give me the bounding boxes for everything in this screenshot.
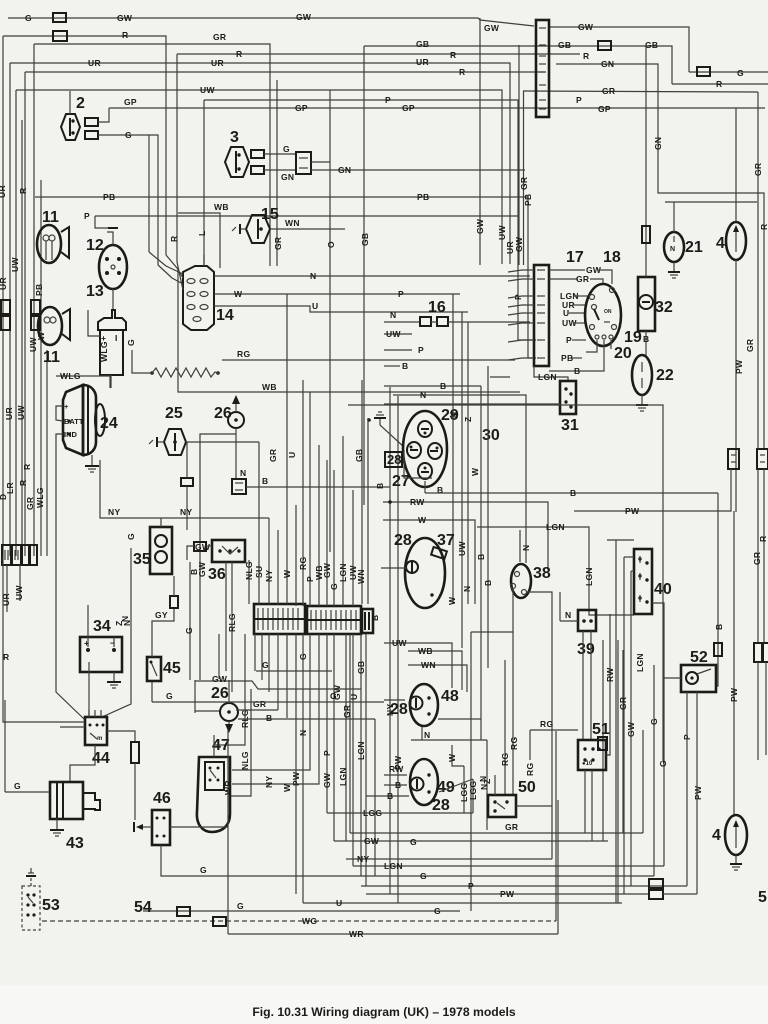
wire GR from 26 (236, 709, 278, 711)
svg-text:LGN: LGN (338, 767, 348, 786)
fusebox strip A (254, 604, 305, 634)
svg-text:UW: UW (457, 541, 467, 556)
gauge bulb top (418, 421, 432, 437)
svg-text:N: N (448, 412, 458, 418)
ignition feed 26 area wire (218, 634, 220, 679)
svg-text:G: G (262, 660, 269, 670)
left edge lower connector row (2, 545, 11, 565)
wire PB long (35, 197, 536, 358)
svg-text:NY: NY (264, 776, 274, 788)
svg-text:WB: WB (262, 382, 277, 392)
svg-text:U: U (349, 694, 359, 700)
stub leads into block (508, 270, 534, 272)
svg-text:G: G (237, 901, 244, 911)
svg-text:35: 35 (133, 551, 151, 568)
svg-text:LGG: LGG (363, 808, 382, 818)
wire UW long (16, 90, 502, 264)
svg-text:LGN: LGN (384, 861, 403, 871)
svg-text:47: 47 (212, 737, 230, 754)
wire R second (177, 53, 580, 55)
svg-text:WLG: WLG (35, 487, 45, 508)
svg-text:12: 12 (86, 237, 104, 254)
svg-text:GR: GR (273, 237, 283, 250)
svg-text:UR: UR (88, 58, 101, 68)
gauge bulb right (428, 443, 442, 459)
multi-connector block upper (17/18 top) (536, 20, 549, 117)
fusebox strip B (307, 606, 361, 634)
svg-text:W: W (470, 467, 480, 476)
wire U bus (303, 902, 622, 904)
wire NY bus (346, 858, 552, 860)
svg-text:U: U (563, 308, 569, 318)
svg-text:P: P (84, 211, 90, 221)
wire B long to right (425, 492, 718, 494)
svg-text:N: N (565, 610, 571, 620)
svg-text:W: W (234, 289, 243, 299)
svg-text:37: 37 (437, 532, 455, 549)
svg-text:P: P (566, 335, 572, 345)
svg-text:B: B (574, 366, 580, 376)
svg-text:N: N (420, 390, 426, 400)
wires right of lamps (452, 745, 464, 766)
wire P mid (95, 216, 108, 228)
svg-text:48: 48 (441, 688, 459, 705)
ground below lamp 4 (730, 863, 742, 865)
svg-text:GW: GW (296, 12, 312, 22)
svg-text:R: R (450, 50, 456, 60)
svg-text:22: 22 (656, 367, 674, 384)
svg-text:4: 4 (716, 235, 725, 252)
svg-text:B: B (483, 580, 493, 586)
wire LGG (327, 812, 473, 814)
svg-text:GP: GP (295, 103, 308, 113)
svg-text:B: B (402, 361, 408, 371)
svg-text:11: 11 (43, 349, 60, 366)
svg-text:G: G (330, 691, 337, 701)
svg-text:+: + (64, 402, 69, 411)
junction arrow into cluster (379, 418, 381, 425)
svg-text:46: 46 (153, 790, 171, 807)
wire LGN to lamp 40 (477, 527, 634, 615)
svg-text:GN: GN (281, 172, 294, 182)
gauge bulb left (407, 442, 421, 458)
wire WB corner (178, 213, 220, 268)
svg-text:UR: UR (211, 58, 224, 68)
svg-text:31: 31 (561, 417, 579, 434)
svg-text:36: 36 (208, 566, 226, 583)
svg-text:GB: GB (360, 233, 370, 246)
svg-text:2: 2 (76, 95, 85, 112)
svg-text:U: U (287, 452, 297, 458)
instrument cluster housing 28/27 (403, 411, 447, 487)
svg-text:P: P (398, 289, 404, 299)
tails below connector row (6, 565, 8, 612)
svg-text:R: R (22, 464, 32, 470)
svg-text:R: R (716, 79, 722, 89)
wire UR long (10, 63, 510, 264)
svg-text:Z: Z (463, 417, 473, 423)
svg-text:GR: GR (25, 497, 35, 510)
wire P top (204, 100, 536, 340)
wire B from 26 (238, 718, 375, 720)
svg-text:GP: GP (598, 104, 611, 114)
svg-text:GB: GB (354, 449, 364, 462)
svg-text:B: B (375, 483, 385, 489)
svg-text:ON: ON (604, 309, 612, 315)
svg-text:W: W (282, 783, 292, 792)
svg-text:N: N (521, 545, 531, 551)
svg-text:W: W (282, 569, 292, 578)
svg-text:G: G (283, 144, 290, 154)
svg-text:34: 34 (93, 618, 111, 635)
svg-text:B: B (266, 713, 272, 723)
connector box on G/GW wire (53, 13, 66, 22)
wire WLG label (56, 376, 110, 388)
svg-text:GR: GR (602, 86, 615, 96)
svg-text:RG: RG (540, 719, 553, 729)
svg-text:LGN: LGN (338, 563, 348, 582)
svg-text:4: 4 (712, 827, 721, 844)
svg-text:WR: WR (223, 780, 233, 795)
wire B over cluster (384, 385, 481, 387)
svg-text:N: N (390, 310, 396, 320)
svg-text:GB: GB (558, 40, 571, 50)
svg-text:GW: GW (475, 218, 485, 234)
svg-text:GW: GW (195, 542, 211, 552)
cluster lower lead B (424, 481, 426, 493)
svg-text:LGN: LGN (584, 567, 594, 586)
svg-text:SU: SU (254, 566, 264, 578)
svg-text:G: G (166, 691, 173, 701)
wire N over cluster (393, 395, 526, 563)
hazard unit 51 (598, 737, 607, 750)
ground below battery (113, 672, 115, 682)
svg-text:R: R (122, 30, 128, 40)
svg-text:UW: UW (392, 638, 407, 648)
wire WB into 48 (408, 651, 462, 690)
svg-text:UR: UR (416, 57, 429, 67)
svg-text:N: N (462, 586, 472, 592)
svg-text:43: 43 (66, 835, 84, 852)
svg-text:NLG: NLG (240, 751, 250, 770)
wire PW right (574, 469, 731, 511)
svg-text:30: 30 (482, 427, 500, 444)
svg-text:WLG: WLG (99, 341, 109, 362)
svg-text:P: P (322, 750, 332, 756)
wire W (383, 520, 475, 604)
svg-text:WG: WG (302, 916, 317, 926)
svg-text:14: 14 (216, 307, 234, 324)
svg-text:G: G (184, 627, 194, 634)
svg-text:GR: GR (752, 552, 762, 565)
svg-text:LGG: LGG (468, 781, 478, 800)
svg-text:GR: GR (268, 449, 278, 462)
wire GW below fusebox (195, 681, 361, 689)
svg-text:LGN: LGN (538, 372, 557, 382)
svg-text:G: G (434, 906, 441, 916)
svg-text:W: W (447, 596, 457, 605)
svg-text:Z: Z (114, 621, 124, 627)
svg-text:GW: GW (322, 772, 332, 788)
wire G-GW top bus (8, 18, 534, 26)
inline connectors right edge (728, 449, 739, 469)
svg-text:LGN: LGN (356, 741, 366, 760)
svg-text:UW: UW (200, 85, 215, 95)
wire G to starter (5, 791, 50, 793)
svg-text:RG: RG (298, 557, 308, 570)
svg-text:G: G (329, 583, 339, 590)
svg-text:GW: GW (484, 23, 500, 33)
wire G below fusebox (256, 670, 332, 672)
svg-text:G: G (737, 68, 744, 78)
svg-text:LGN: LGN (546, 522, 565, 532)
svg-text:40: 40 (654, 581, 672, 598)
svg-text:R: R (583, 51, 589, 61)
svg-text:WR: WR (349, 929, 364, 939)
wire WN into 48 (408, 665, 467, 692)
svg-text:R: R (18, 480, 28, 486)
svg-text:UR: UR (4, 407, 14, 420)
svg-text:LR: LR (5, 482, 15, 494)
svg-text:N: N (424, 730, 430, 740)
svg-text:−: − (110, 638, 115, 648)
svg-text:UW: UW (386, 329, 401, 339)
svg-text:13: 13 (86, 283, 104, 300)
svg-text:G: G (649, 718, 659, 725)
svg-text:PW: PW (729, 687, 739, 702)
svg-text:GW: GW (364, 836, 380, 846)
svg-text:GR: GR (505, 822, 518, 832)
svg-text:27: 27 (392, 473, 410, 490)
svg-text:B: B (262, 476, 268, 486)
svg-text:RLG: RLG (227, 613, 237, 632)
svg-text:28: 28 (387, 452, 401, 467)
wire RW (383, 502, 548, 570)
svg-text:G: G (125, 130, 132, 140)
wire GR bus (350, 832, 643, 834)
svg-text:45: 45 (163, 660, 181, 677)
svg-text:32: 32 (655, 299, 673, 316)
svg-text:N: N (670, 246, 675, 253)
svg-text:N: N (478, 776, 488, 782)
svg-text:38: 38 (533, 565, 551, 582)
svg-text:PB: PB (103, 192, 115, 202)
svg-text:GW: GW (514, 236, 524, 252)
wire G to relay 44 (102, 548, 131, 717)
svg-text:WN: WN (421, 660, 436, 670)
ground below 22 (636, 404, 648, 406)
inline connector right of lamp 3 (296, 152, 311, 174)
cluster feed wires (389, 387, 391, 894)
svg-text:GB: GB (645, 40, 658, 50)
svg-text:GY: GY (155, 610, 168, 620)
wire R third (25, 71, 545, 73)
svg-text:GW: GW (212, 674, 228, 684)
svg-text:R: R (236, 49, 242, 59)
svg-text:GW: GW (322, 562, 332, 578)
svg-text:PB: PB (417, 192, 429, 202)
svg-text:GN: GN (653, 137, 663, 150)
fusebox end cap (362, 609, 373, 633)
svg-text:R: R (459, 67, 465, 77)
wire RG mid (222, 359, 515, 361)
connector to 36 (194, 542, 206, 551)
wire R right edge (672, 83, 768, 85)
ground below 21 (673, 262, 675, 272)
left harness vertical wires (2, 36, 4, 556)
svg-text:GW: GW (578, 22, 594, 32)
wire B below block (549, 368, 604, 371)
svg-text:18: 18 (603, 249, 621, 266)
svg-text:5: 5 (758, 889, 767, 906)
wire LGN bus (353, 865, 664, 867)
svg-text:B: B (440, 381, 446, 391)
wire NY long (100, 460, 269, 518)
svg-text:PB: PB (34, 284, 44, 296)
wire W from 14 (214, 293, 460, 295)
svg-text:Fig. 10.31 Wiring diagram (UK): Fig. 10.31 Wiring diagram (UK) – 1978 mo… (252, 1005, 516, 1019)
svg-text:B: B (387, 791, 393, 801)
svg-text:R: R (3, 652, 9, 662)
svg-text:GN: GN (338, 165, 351, 175)
svg-text:GW: GW (117, 13, 133, 23)
connector boxes at lamp 3 (251, 150, 264, 158)
svg-text:20: 20 (614, 345, 632, 362)
svg-text:26: 26 (214, 405, 232, 422)
wires below fusebox (254, 634, 256, 671)
ground below alternator (91, 455, 93, 466)
svg-text:PW: PW (500, 889, 515, 899)
svg-text:PW: PW (693, 785, 703, 800)
svg-text:G: G (200, 865, 207, 875)
long wire over cluster (348, 405, 663, 616)
wire LGN below block (534, 366, 568, 380)
svg-text:NY: NY (108, 507, 120, 517)
svg-text:50: 50 (518, 779, 536, 796)
ground below starter (56, 819, 58, 830)
svg-text:24: 24 (100, 415, 118, 432)
connector boxes at lamp 2 (85, 118, 98, 126)
leads into connector 14 (149, 252, 183, 274)
wires from 46 (170, 826, 228, 828)
wire R top with connector (3, 36, 166, 255)
svg-text:GB: GB (356, 661, 366, 674)
svg-text:UW: UW (10, 257, 20, 272)
svg-text:●10: ●10 (582, 761, 593, 767)
svg-text:+: + (101, 333, 106, 343)
svg-text:IND: IND (64, 430, 78, 439)
wires above fusebox (248, 560, 250, 604)
wire B mid (384, 365, 400, 367)
svg-text:BATT: BATT (64, 417, 84, 426)
svg-text:RW: RW (605, 667, 615, 682)
wire RLG left of fusebox (225, 562, 227, 671)
wire G bus (170, 875, 654, 877)
svg-text:WN: WN (285, 218, 300, 228)
svg-text:RG: RG (525, 763, 535, 776)
svg-text:B: B (370, 615, 380, 621)
horn 11 lower (38, 307, 62, 345)
svg-text:RW: RW (389, 764, 404, 774)
svg-text:P: P (576, 95, 582, 105)
svg-text:GR: GR (213, 32, 226, 42)
svg-text:G: G (25, 13, 32, 23)
svg-text:N: N (298, 730, 308, 736)
svg-text:N: N (240, 468, 246, 478)
wire G bus low (165, 910, 460, 912)
svg-text:11: 11 (42, 209, 59, 226)
svg-text:GW: GW (626, 721, 636, 737)
svg-text:NLG: NLG (244, 561, 254, 580)
label 28 boxed (385, 452, 402, 467)
wire GP long (109, 107, 765, 109)
svg-text:3: 3 (230, 129, 239, 146)
wire GB top right (364, 46, 672, 84)
svg-text:GN: GN (601, 59, 614, 69)
svg-text:28: 28 (432, 797, 450, 814)
svg-text:+: + (84, 638, 89, 648)
right edge long wires (757, 92, 759, 449)
svg-text:GR: GR (753, 163, 763, 176)
svg-text:UW: UW (16, 405, 26, 420)
wire WB mid (178, 268, 520, 392)
svg-text:51: 51 (592, 721, 610, 738)
svg-text:53: 53 (42, 897, 60, 914)
svg-text:GR: GR (253, 699, 266, 709)
wire GW-G bus (334, 840, 608, 842)
svg-text:UW: UW (14, 585, 24, 600)
wires into relay 44 (88, 662, 90, 717)
svg-text:B: B (714, 624, 724, 630)
svg-text:PB: PB (523, 194, 533, 206)
svg-text:G: G (126, 533, 136, 540)
svg-text:U: U (336, 898, 342, 908)
svg-text:28: 28 (390, 701, 408, 718)
svg-text:I: I (115, 333, 118, 343)
svg-text:P: P (385, 95, 391, 105)
wire G mid-left (152, 701, 384, 703)
svg-text:GP: GP (124, 97, 137, 107)
ignition switch 19/20 wires (549, 269, 585, 271)
RG wire to 51 (530, 729, 578, 731)
svg-text:26: 26 (211, 685, 229, 702)
svg-text:R: R (759, 224, 768, 230)
svg-text:PW: PW (734, 359, 744, 374)
svg-text:GR: GR (618, 697, 628, 710)
svg-text:W: W (447, 753, 457, 762)
svg-text:RG: RG (500, 753, 510, 766)
svg-text:RW: RW (410, 497, 425, 507)
svg-text:G: G (420, 871, 427, 881)
svg-text:NY: NY (180, 507, 192, 517)
svg-text:G: G (298, 653, 308, 660)
svg-text:17: 17 (566, 249, 584, 266)
wire GN right (556, 64, 764, 449)
gauge bulb bottom (418, 463, 432, 479)
svg-text:B: B (395, 780, 401, 790)
wires to lamp unit 40 (615, 540, 617, 903)
wire GR mid right (523, 91, 758, 92)
wire U from 14 (214, 306, 468, 312)
wire GR top (34, 44, 270, 266)
wire G far right with connector (689, 71, 768, 73)
svg-text:W: W (418, 515, 427, 525)
mid vertical wires (361, 380, 363, 604)
svg-text:GR: GR (576, 274, 589, 284)
svg-text:25: 25 (165, 405, 183, 422)
svg-text:P: P (468, 881, 474, 891)
svg-text:39: 39 (577, 641, 595, 658)
